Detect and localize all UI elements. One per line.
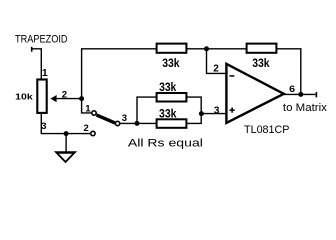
svg-text:2: 2	[62, 89, 67, 100]
svg-text:33k: 33k	[252, 56, 270, 70]
junction node F (ground)	[64, 131, 69, 136]
pot wiper arrow	[50, 95, 56, 102]
wire switch throw 3 to node C	[120, 122, 137, 124]
wire node D to op-amp pin 3	[201, 113, 226, 115]
svg-text:3: 3	[122, 113, 127, 124]
wire pot pin 3 to ground node and switch contact 2	[41, 114, 90, 134]
switch pole contact 1	[92, 111, 96, 115]
input terminal tick	[31, 47, 33, 52]
svg-text:10k: 10k	[15, 92, 33, 102]
svg-text:33k: 33k	[159, 107, 177, 121]
ground symbol	[54, 151, 77, 163]
svg-text:TL081CP: TL081CP	[244, 124, 290, 136]
resistor R3 body (33k upper parallel)	[157, 93, 187, 102]
switch throw contact 2 (open)	[91, 131, 95, 135]
junction node C (left of parallel pair)	[135, 121, 140, 126]
wire input to pot pin 1	[32, 49, 42, 79]
svg-text:1: 1	[42, 67, 48, 79]
wire ground stem	[65, 134, 67, 152]
junction node E (output / feedback)	[298, 92, 303, 97]
junction node D (non-inverting input node)	[199, 111, 204, 116]
wire R2 to output node	[277, 49, 301, 95]
op-amp plus sign	[230, 107, 235, 112]
resistor R2 body (33k feedback)	[247, 44, 277, 53]
wire node C to resistor R4	[137, 122, 157, 124]
switch lever	[96, 115, 115, 123]
svg-text:1: 1	[85, 103, 91, 114]
svg-text:33k: 33k	[162, 56, 180, 70]
op-amp minus sign	[230, 75, 235, 77]
op-amp U1 TL081CP triangle	[226, 64, 283, 123]
wire node B to op-amp pin 2	[207, 49, 227, 74]
resistor R1 body (33k)	[157, 44, 187, 53]
svg-text:33k: 33k	[159, 80, 176, 94]
switch throw contact 3	[115, 121, 119, 125]
svg-text:3: 3	[41, 121, 46, 132]
wire R1 to R2	[187, 48, 247, 50]
svg-text:2: 2	[213, 64, 219, 75]
svg-text:2: 2	[84, 123, 89, 134]
junction node A (wiper / top wire / switch pole)	[79, 96, 84, 101]
potentiometer 10k body	[37, 80, 46, 113]
svg-text:6: 6	[289, 84, 295, 95]
wire node A to resistor R1	[81, 48, 157, 50]
junction node B (inverting input node)	[204, 46, 209, 51]
svg-text:to Matrix: to Matrix	[283, 102, 328, 114]
wire op-amp output to terminal	[284, 93, 316, 95]
svg-text:3: 3	[214, 105, 220, 116]
wire wiper to node A	[56, 98, 82, 100]
output terminal tick	[316, 92, 318, 98]
svg-text:TRAPEZOID: TRAPEZOID	[15, 34, 68, 46]
svg-text:All Rs equal: All Rs equal	[128, 137, 203, 149]
resistor R4 body (33k lower parallel)	[157, 119, 187, 128]
wire R3/R4 right ends to node D	[187, 97, 202, 123]
wire node C up to resistor R3	[137, 97, 157, 123]
wire node A vertical to switch pole	[82, 49, 92, 113]
